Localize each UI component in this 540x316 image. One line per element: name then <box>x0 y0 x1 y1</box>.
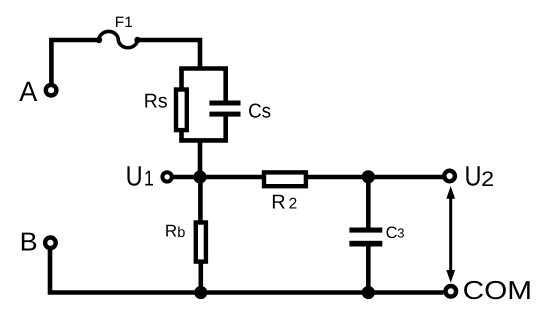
capacitor C3 top plate <box>349 228 382 233</box>
node Rb bottom junction dot <box>194 286 207 299</box>
parallel block top bar <box>179 66 228 71</box>
wire C3 branch lower <box>366 246 371 293</box>
wire from B down and right to COM <box>50 250 444 293</box>
svg-text:3: 3 <box>397 226 404 241</box>
main horizontal wire U1 to U2 <box>173 175 444 180</box>
terminal COM <box>446 286 457 297</box>
wire left branch lower <box>179 130 184 140</box>
wire right branch upper <box>223 69 228 102</box>
arrowhead up (at U2) <box>446 186 455 199</box>
svg-text:R: R <box>271 192 285 214</box>
wire from block down to node U1 <box>198 140 203 177</box>
fuse F1 S-curve <box>99 31 138 47</box>
resistor R2 <box>264 172 306 186</box>
svg-text:Cs: Cs <box>248 100 271 122</box>
node C3 bottom junction dot <box>362 286 375 299</box>
svg-text:Rs: Rs <box>144 90 168 112</box>
node C3 top junction dot <box>362 170 375 183</box>
svg-text:A: A <box>19 76 37 107</box>
svg-text:C: C <box>386 224 398 242</box>
svg-text:U: U <box>465 160 482 191</box>
capacitor C3 bottom plate <box>349 241 382 247</box>
svg-text:F1: F1 <box>115 14 133 31</box>
svg-text:B: B <box>20 226 38 256</box>
parallel block bottom bar <box>179 138 228 143</box>
arrowhead down (at COM) <box>446 270 455 283</box>
wire from terminal A up and right to fuse <box>51 40 99 84</box>
wire from fuse right to corner then down to parallel block <box>138 40 201 69</box>
arrow shaft between U2 and COM <box>449 196 452 273</box>
svg-text:COM: COM <box>463 275 532 305</box>
resistor Rb <box>196 223 206 262</box>
capacitor Cs top plate <box>209 101 240 106</box>
terminal U1 <box>162 172 171 181</box>
svg-text:2: 2 <box>481 168 494 191</box>
terminal U2 <box>444 171 455 182</box>
terminal B <box>45 238 56 249</box>
wire right branch lower <box>223 116 228 141</box>
wire Rb down to bottom wire <box>199 261 204 293</box>
resistor Rs <box>176 90 187 131</box>
capacitor Cs bottom plate <box>209 112 240 117</box>
wire U1 junction down to Rb <box>198 177 203 224</box>
svg-text:2: 2 <box>289 196 298 213</box>
wire left branch upper <box>179 69 184 91</box>
fuse F1 right dot <box>134 37 140 43</box>
svg-text:1: 1 <box>144 167 154 191</box>
svg-text:b: b <box>177 225 185 241</box>
terminal A <box>46 85 57 96</box>
wire C3 branch upper <box>366 177 371 228</box>
node U1 junction dot <box>193 170 206 183</box>
fuse F1 left dot <box>96 37 102 43</box>
svg-text:R: R <box>165 222 177 241</box>
svg-text:U: U <box>126 160 143 191</box>
